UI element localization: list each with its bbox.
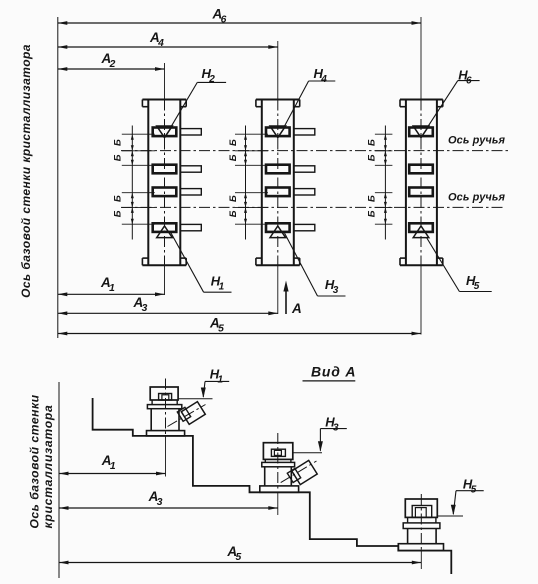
datum triangle bottom (segment 2) <box>270 226 286 238</box>
roller unit 2: neck <box>265 459 291 462</box>
svg-text:А: А <box>291 301 302 316</box>
datum triangle top (segment 3) <box>413 126 429 138</box>
centre line assembly 1 <box>164 63 166 295</box>
roller unit 2: angled cylinder <box>281 460 318 484</box>
stream axis 2 (Ось ручья) horizontal dash-dot line <box>121 206 505 208</box>
svg-text:3: 3 <box>333 285 339 296</box>
svg-text:Б: Б <box>113 195 124 202</box>
roller unit 1: centre line <box>165 379 167 477</box>
label Б (segment 3) <box>367 210 378 217</box>
dimension A6 <box>58 7 421 26</box>
roller unit 2: body <box>265 467 292 486</box>
dimension A3 (view A) <box>59 489 278 510</box>
leader label H5 <box>427 238 492 293</box>
roller 1.3 <box>153 188 202 197</box>
roller unit 1: collar <box>147 405 181 409</box>
svg-text:Б: Б <box>113 154 124 161</box>
leader label H5 (view A) <box>451 476 484 515</box>
stepped mould wall profile <box>93 398 452 574</box>
left extension line (axis of crystallizer base wall, top view) <box>57 17 59 338</box>
svg-text:1: 1 <box>110 461 116 472</box>
label Б (segment 2) <box>228 139 239 146</box>
svg-text:4: 4 <box>157 38 164 49</box>
label Б (segment 2) <box>228 154 239 161</box>
roller 2.1 <box>266 128 315 137</box>
label Б (segment 1) <box>113 195 124 202</box>
svg-text:Ось базовой стенки кристаллиза: Ось базовой стенки кристаллизатора <box>19 44 33 298</box>
roller unit 3: centre line <box>420 494 422 569</box>
roller 2.3 <box>266 188 315 197</box>
roller 3.1 <box>409 128 433 137</box>
datum triangle top (segment 2) <box>270 126 286 138</box>
svg-text:Вид А: Вид А <box>311 364 356 380</box>
svg-text:5: 5 <box>236 552 242 563</box>
dimension A1 <box>58 275 165 296</box>
vertical axis text bottom view line 2: кристаллизатора <box>41 404 55 528</box>
svg-text:3: 3 <box>157 497 163 508</box>
svg-text:6: 6 <box>221 15 227 26</box>
leader label H1 (view A) <box>201 367 229 398</box>
leader label H3 <box>285 233 346 296</box>
svg-text:2: 2 <box>208 74 215 85</box>
svg-text:Б: Б <box>113 210 124 217</box>
label Б (segment 3) <box>367 195 378 202</box>
roller segment frame 1 (column with corner ears) <box>142 100 186 266</box>
label Б (segment 2) <box>228 210 239 217</box>
svg-text:5: 5 <box>218 324 224 335</box>
leader label H4 <box>284 66 335 128</box>
leader label H6 <box>427 67 479 127</box>
svg-text:1: 1 <box>219 282 225 293</box>
svg-text:кристаллизатора: кристаллизатора <box>41 404 55 528</box>
roller unit 2: centre line <box>277 433 279 515</box>
svg-text:3: 3 <box>142 303 148 314</box>
svg-text:Ось ручья: Ось ручья <box>448 192 506 204</box>
svg-text:5: 5 <box>474 281 480 292</box>
svg-text:1: 1 <box>218 375 224 386</box>
label Ось ручья (lower) <box>448 192 506 204</box>
vertical axis text, top view: Ось базовой стенки кристаллизатора <box>19 44 33 298</box>
svg-text:Ось базовой стенки: Ось базовой стенки <box>28 394 42 528</box>
roller segment frame 3 (column with corner ears) <box>400 100 443 266</box>
roller unit 2: base plate <box>260 486 299 492</box>
datum triangle bottom (segment 3) <box>413 226 429 238</box>
svg-text:5: 5 <box>471 484 477 495</box>
leader label H2 <box>171 66 226 127</box>
svg-text:Б: Б <box>367 210 378 217</box>
roller 3.3 <box>409 188 433 197</box>
label Б (segment 1) <box>113 139 124 146</box>
svg-text:Б: Б <box>228 139 239 146</box>
centre line assembly 2 <box>277 41 279 314</box>
roller unit 3: measuring leader line <box>437 515 463 517</box>
datum triangle top (segment 1) <box>157 126 173 138</box>
vertical axis text bottom view line 1: Ось базовой стенки <box>28 394 42 528</box>
roller segment frame 2 (column with corner ears) <box>256 100 300 266</box>
svg-text:Б: Б <box>367 195 378 202</box>
section view arrow A <box>283 281 301 317</box>
dimension A5 (view A) <box>59 544 421 564</box>
roller 2.4 <box>266 223 315 232</box>
svg-text:Б: Б <box>113 139 124 146</box>
leader label H3 (view A) <box>318 415 347 452</box>
svg-text:Б: Б <box>228 195 239 202</box>
label Б (segment 1) <box>113 154 124 161</box>
Б chain dimension line (segment 1) <box>122 126 155 240</box>
label Ось ручья (upper) <box>448 135 506 147</box>
roller unit 1: base plate <box>147 431 185 436</box>
roller unit 3: collar <box>403 523 440 529</box>
roller unit 1: neck <box>152 400 177 405</box>
roller 3.2 <box>409 165 433 174</box>
roller unit 1: measuring leader line <box>178 398 212 400</box>
svg-text:Б: Б <box>367 139 378 146</box>
Б chain dimension line (segment 3) <box>375 126 393 240</box>
roller 3.4 <box>409 223 433 232</box>
roller 2.2 <box>266 165 315 174</box>
svg-text:Б: Б <box>228 210 239 217</box>
roller 1.4 <box>153 223 202 232</box>
roller unit 3: neck <box>408 517 436 523</box>
roller unit 1: body <box>151 409 179 431</box>
label Б (segment 3) <box>367 139 378 146</box>
svg-text:Б: Б <box>228 154 239 161</box>
dimension A2 <box>58 51 165 71</box>
roller unit 2: top housing <box>263 443 292 460</box>
roller 1.2 <box>153 165 202 174</box>
centre line assembly 3 <box>420 17 422 335</box>
svg-text:4: 4 <box>320 74 327 85</box>
roller unit 2: collar <box>262 462 295 466</box>
leader label H1 <box>171 233 232 293</box>
roller unit 3: body <box>408 529 437 544</box>
datum triangle bottom (segment 1) <box>157 226 173 238</box>
stream axis 1 (Ось ручья) horizontal dash-dot line <box>121 150 508 152</box>
label Б (segment 2) <box>228 195 239 202</box>
svg-text:1: 1 <box>109 283 115 294</box>
roller unit 3: base plate <box>398 544 443 551</box>
roller unit 2: measuring leader line <box>293 452 322 454</box>
dimension A1 (view A) <box>59 453 166 475</box>
dimension A3 <box>58 295 278 315</box>
dimension A4 <box>58 30 278 49</box>
roller unit 1: top housing <box>150 387 178 400</box>
svg-text:Ось ручья: Ось ручья <box>448 135 506 147</box>
dimension A5 <box>58 316 421 336</box>
label Б (segment 3) <box>367 154 378 161</box>
svg-text:Б: Б <box>367 154 378 161</box>
svg-text:2: 2 <box>109 59 116 70</box>
label Б (segment 1) <box>113 210 124 217</box>
view title Вид А <box>303 364 357 381</box>
roller 1.1 <box>153 128 202 137</box>
left extension line (bottom view) <box>58 382 60 578</box>
roller unit 3: top housing <box>405 499 437 517</box>
roller unit 1: angled cylinder <box>168 402 206 427</box>
Б chain dimension line (segment 2) <box>235 126 268 240</box>
